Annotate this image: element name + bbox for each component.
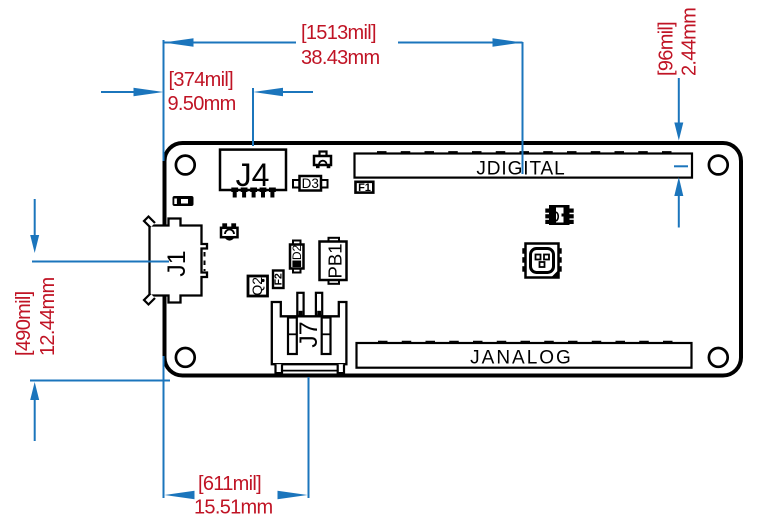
dimension 96mil/2.44mm: reference tick in header [674,165,688,167]
dimension 1513mil/38.43mm: extension line at board left edge [163,40,165,161]
fuse F1 [356,182,374,194]
diode D2 [290,241,304,273]
dimension 490mil/12.44mm: upper leader to J1 center [34,199,36,235]
capacitor C1 footprint (top, right of J4) [314,152,331,169]
dimension 374mil/9.50mm: left outside arrow [101,91,135,93]
connector J1 (micro-USB on left edge) [144,217,207,305]
IC U2 (QFN sensor) [522,244,561,278]
dimension text 490mil (rotated) [13,277,59,356]
mounting hole top-right [709,156,728,175]
diode D3 [293,176,328,191]
mounting hole top-left [176,156,195,175]
svg-text:F2: F2 [273,273,285,285]
J4 pin 4 [260,188,267,193]
dimension 96mil/2.44mm: lower arrow pointing up [674,177,683,196]
svg-text:D3: D3 [302,176,319,191]
svg-text:12.44mm: 12.44mm [37,277,59,356]
J7 bottom lip [282,370,338,372]
J7 pin right [316,293,322,316]
svg-text:15.51mm: 15.51mm [194,497,273,519]
IC U1 (SOT-23) [545,205,573,225]
svg-text:Q2: Q2 [249,277,265,296]
dimension text 96mil (rotated) [656,8,701,76]
J7 foot right [338,364,344,373]
mounting hole bottom-right [709,348,728,367]
svg-text:D2: D2 [290,245,304,261]
svg-text:JDIGITAL: JDIGITAL [476,159,565,180]
svg-text:J1: J1 [163,250,191,276]
LED D4 footprint (right of J1) [221,223,238,240]
mounting hole bottom-left [176,348,195,367]
header JANALOG [357,342,692,369]
svg-text:[96mil]: [96mil] [656,22,678,76]
fuse F2 [273,271,285,289]
J1 hidden edge (dashed) [204,252,206,271]
J7 pin left [297,293,303,316]
svg-text:2.44mm: 2.44mm [679,8,701,76]
dimension 374mil/9.50mm: right outside arrow [283,91,313,93]
J7 slot left [288,318,297,355]
dimension 374mil/9.50mm: extension line at J4 center [252,88,254,146]
dimension 1513mil/38.43mm: dimension line with arrows [164,42,297,44]
dimension 1513mil/38.43mm: extension line at J4/JDIGITAL reference [522,42,524,174]
pushbutton PB1 [320,238,347,284]
header JDIGITAL [355,152,693,179]
svg-text:J7: J7 [295,321,323,347]
J4 pin 5 [269,188,276,193]
dimension 611mil/15.51mm: extension line at board left edge [163,356,165,498]
J1 mounting ear top-left [144,217,155,228]
transistor Q2 [248,276,268,296]
svg-text:9.50mm: 9.50mm [168,93,236,115]
svg-text:PB1: PB1 [325,244,346,279]
svg-text:[374mil]: [374mil] [169,69,234,91]
board outline [165,143,742,376]
svg-text:JANALOG: JANALOG [470,347,573,368]
J4 pin 3 [250,188,257,193]
J1 mounting ear bottom-left [144,294,155,305]
dimension 490mil/12.44mm: lower reference line [30,380,170,382]
J7 slot right [322,318,331,355]
LED D1 (black SMD near top-left) [173,196,194,206]
svg-text:38.43mm: 38.43mm [301,47,380,69]
dimension 96mil/2.44mm: upper arrow pointing down at board edge [678,78,680,124]
J4 pin 2 [241,188,248,193]
svg-text:[611mil]: [611mil] [198,473,261,495]
connector J4 [220,150,286,198]
J7 foot left [276,364,283,373]
connector J7 [272,293,347,373]
dimension 611mil/15.51mm: extension line at J7 center [308,377,310,498]
svg-text:[490mil]: [490mil] [13,291,35,356]
svg-text:F1: F1 [358,182,371,194]
svg-text:[1513mil]: [1513mil] [301,22,376,44]
J7 body [272,302,347,364]
dimension 611mil/15.51mm: arrows [165,491,195,499]
J4 pin 1 [231,188,238,193]
